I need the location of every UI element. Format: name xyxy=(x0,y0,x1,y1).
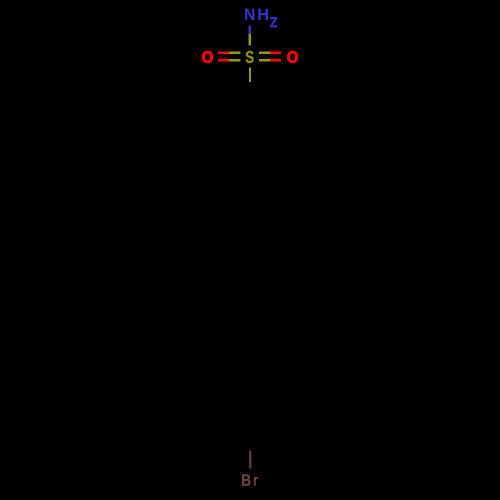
double bond S=O right, upper line, O half xyxy=(270,51,281,54)
double bond S=O right, upper line, S half xyxy=(259,51,270,54)
atom label S xyxy=(246,51,254,63)
double bond S=O left, lower line, O half xyxy=(218,59,229,62)
atom label Br: B xyxy=(242,474,250,485)
atom label O right xyxy=(287,51,297,63)
atom label H of NH2 xyxy=(258,9,268,20)
double bond S=O left, upper line, O half xyxy=(218,51,229,54)
double bond S=O left, upper line, S half xyxy=(229,51,240,54)
bond N-S upper half (N colored) xyxy=(248,25,251,34)
bond N-S lower half (S colored) xyxy=(248,34,251,45)
atom label Br: r xyxy=(254,477,258,486)
double bond S=O left, lower line, S half xyxy=(229,59,240,62)
double bond S=O right, lower line, S half xyxy=(259,59,270,62)
bond C-Br stub (Br colored half; C half invisible black) xyxy=(249,451,252,469)
double bond S=O right, lower line, O half xyxy=(270,59,281,62)
bond S-C stub (S colored half; C half invisible black) xyxy=(249,68,251,82)
atom label N of NH2 xyxy=(245,9,254,20)
atom label O left xyxy=(202,51,213,63)
atom label subscript 2 of NH2 xyxy=(270,17,277,27)
